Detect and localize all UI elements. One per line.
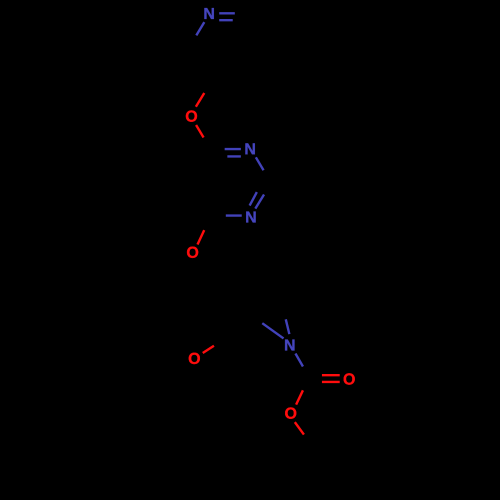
- svg-text:O: O: [284, 406, 296, 423]
- bond N3=C2 inner double line (blue half): [250, 192, 257, 206]
- bond N2=C4 inner double line (blue half): [227, 155, 241, 157]
- svg-text:N: N: [284, 338, 296, 355]
- bond N4-C2' (blue half, up-left): [262, 323, 283, 338]
- bond O5-C(=O) (red half, up-right): [296, 390, 303, 404]
- svg-text:O: O: [188, 351, 200, 368]
- bond N2-C2 (blue half, down-right): [256, 157, 264, 170]
- bond C=O4 lower line (red half): [322, 381, 340, 383]
- svg-text:N: N: [244, 141, 256, 158]
- bond N4-C(=O) (blue half, down-right): [295, 354, 303, 367]
- bond O5-C(CH3)3 (red half, down-right): [295, 422, 304, 434]
- bond N2=C4 main line (blue half, left): [225, 148, 241, 150]
- bond O1-C3(pyridine) (red half, up-right): [196, 93, 204, 107]
- bond O1-C4(pyrimidine) (red half, down-right): [196, 125, 204, 138]
- bond C=O4 upper line (red half): [322, 374, 340, 376]
- bond N1=C2 inner double line (blue half): [219, 19, 233, 21]
- bond N4-C4' (blue half, up): [286, 319, 290, 334]
- bond N1-C6 (blue half, down-left): [196, 22, 204, 35]
- bond O3-CH2 (red half, up-right): [203, 346, 214, 353]
- svg-text:O: O: [343, 372, 355, 389]
- bond N3-C6 (blue half, left): [226, 214, 242, 216]
- bond O2-C6 (red half, up-right): [198, 230, 205, 244]
- bond N3=C2 main line (blue half, up-right): [255, 195, 264, 209]
- svg-text:O: O: [186, 245, 198, 262]
- svg-text:O: O: [185, 109, 197, 126]
- svg-text:N: N: [245, 209, 257, 226]
- bond N1=C2 main line (blue half): [219, 12, 235, 14]
- svg-text:N: N: [203, 6, 215, 23]
